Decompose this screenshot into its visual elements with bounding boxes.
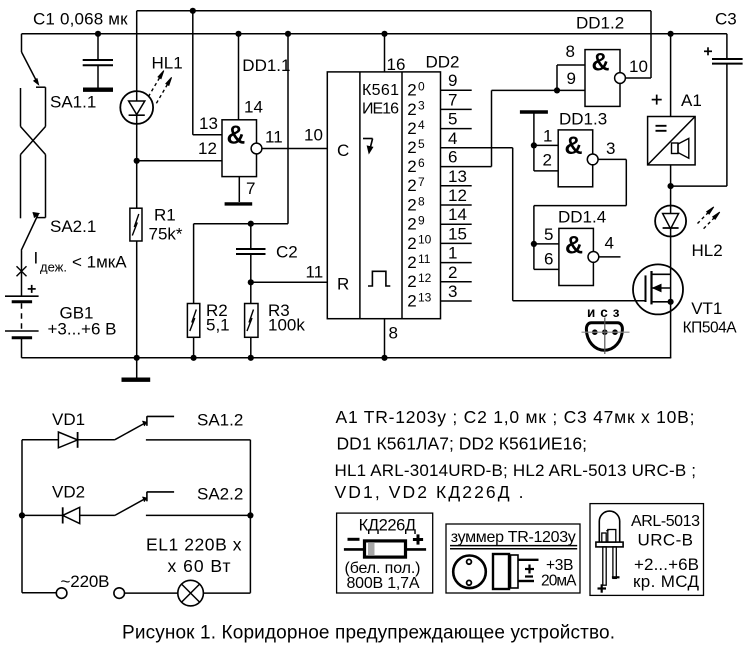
svg-text:2: 2 — [407, 157, 416, 176]
svg-text:12: 12 — [418, 271, 432, 285]
svg-text:DD1.2: DD1.2 — [576, 14, 624, 33]
svg-text:HL2: HL2 — [692, 241, 723, 260]
svg-text:КП504А: КП504А — [683, 319, 738, 336]
svg-text:5: 5 — [448, 110, 457, 129]
svg-text:14: 14 — [244, 98, 263, 117]
svg-text:х 60 Вт: х 60 Вт — [168, 556, 231, 576]
svg-text:2: 2 — [407, 119, 416, 138]
svg-text:2: 2 — [407, 176, 416, 195]
svg-text:ИЕ16: ИЕ16 — [362, 101, 399, 118]
svg-text:C2: C2 — [276, 243, 298, 262]
svg-text:2: 2 — [448, 263, 457, 282]
svg-text:+3В: +3В — [546, 557, 574, 574]
svg-text:КД226Д: КД226Д — [359, 517, 417, 535]
svg-text:VT1: VT1 — [691, 299, 722, 318]
svg-text:SA2.1: SA2.1 — [50, 217, 96, 236]
svg-text:DD1.1: DD1.1 — [242, 56, 290, 75]
svg-text:11: 11 — [306, 263, 324, 282]
svg-text:20мА: 20мА — [541, 573, 577, 590]
svg-text:13: 13 — [448, 167, 467, 186]
svg-text:2: 2 — [407, 138, 416, 157]
svg-text:800В 1,7А: 800В 1,7А — [347, 575, 420, 592]
svg-text:15: 15 — [448, 224, 467, 243]
svg-text:5,1: 5,1 — [206, 316, 230, 335]
svg-text:C1 0,068 мк: C1 0,068 мк — [33, 10, 128, 29]
svg-text:5: 5 — [544, 225, 553, 244]
svg-text:I: I — [34, 249, 39, 268]
svg-text:10: 10 — [629, 57, 648, 76]
svg-text:&: & — [565, 132, 583, 160]
svg-text:2: 2 — [407, 81, 416, 100]
svg-text:2: 2 — [407, 215, 416, 234]
svg-text:DD2: DD2 — [426, 53, 460, 72]
svg-text:13: 13 — [418, 290, 432, 304]
svg-text:0: 0 — [418, 80, 425, 94]
svg-text:1: 1 — [543, 126, 552, 145]
svg-text:9: 9 — [567, 69, 576, 88]
svg-text:11: 11 — [418, 252, 431, 266]
svg-text:14: 14 — [448, 205, 467, 224]
svg-text:A1 TR-1203у ; C2 1,0 мк ; C: A1 TR-1203у ; C2 1,0 мк ; C3 47мк х 10В; — [336, 407, 695, 427]
svg-text:2: 2 — [407, 195, 416, 214]
svg-text:10: 10 — [304, 126, 323, 145]
svg-text:DD1 К561ЛА7; DD2 К561ИЕ16;: DD1 К561ЛА7; DD2 К561ИЕ16; — [337, 434, 588, 454]
svg-text:5: 5 — [418, 137, 425, 151]
svg-text:10: 10 — [418, 233, 432, 247]
svg-text:2: 2 — [407, 272, 416, 291]
svg-text:DD1.4: DD1.4 — [558, 207, 606, 226]
svg-text:&: & — [592, 49, 610, 77]
svg-text:VD1: VD1 — [52, 410, 85, 429]
svg-text:2: 2 — [543, 150, 552, 169]
svg-text:3: 3 — [418, 99, 425, 113]
svg-text:URC-B: URC-B — [638, 530, 694, 549]
svg-text:8: 8 — [389, 324, 398, 343]
svg-text:2: 2 — [407, 253, 416, 272]
svg-text:16: 16 — [387, 55, 406, 74]
svg-text:< 1мкА: < 1мкА — [72, 253, 127, 272]
svg-text:R: R — [337, 275, 349, 294]
svg-text:11: 11 — [265, 128, 283, 147]
svg-text:12: 12 — [448, 186, 467, 205]
svg-text:DD1.3: DD1.3 — [559, 109, 607, 128]
svg-text:2: 2 — [407, 100, 416, 119]
svg-text:8: 8 — [566, 42, 575, 61]
svg-text:кр. МСД: кр. МСД — [633, 572, 699, 591]
svg-text:SA2.2: SA2.2 — [197, 485, 243, 504]
svg-text:К561: К561 — [362, 82, 399, 99]
svg-text:6: 6 — [448, 148, 457, 167]
svg-text:6: 6 — [544, 249, 553, 268]
svg-text:EL1 220В х: EL1 220В х — [146, 535, 242, 555]
svg-text:9: 9 — [448, 71, 457, 90]
svg-text:9: 9 — [418, 214, 425, 228]
svg-text:2: 2 — [407, 234, 416, 253]
svg-text:зуммер TR-1203у: зуммер TR-1203у — [451, 529, 576, 546]
svg-text:2: 2 — [407, 291, 416, 310]
svg-text:C3: C3 — [715, 10, 737, 29]
svg-text:SA1.2: SA1.2 — [197, 411, 243, 430]
svg-text:~220В: ~220В — [61, 572, 110, 591]
svg-text:+3...+6 В: +3...+6 В — [48, 320, 117, 339]
svg-text:HL1 ARL-3014URD-B; HL2 ARL-50: HL1 ARL-3014URD-B; HL2 ARL-5013 URC-B ; — [335, 461, 697, 480]
svg-text:SA1.1: SA1.1 — [50, 93, 96, 112]
svg-text:1: 1 — [448, 244, 457, 263]
svg-text:75k*: 75k* — [149, 225, 183, 244]
svg-text:7: 7 — [418, 175, 425, 189]
svg-text:&: & — [227, 120, 246, 150]
svg-text:HL1: HL1 — [152, 54, 183, 73]
svg-text:6: 6 — [418, 156, 425, 170]
svg-text:ARL-5013: ARL-5013 — [631, 513, 700, 530]
svg-text:3: 3 — [606, 139, 615, 158]
svg-text:7: 7 — [448, 90, 457, 109]
svg-text:4: 4 — [605, 234, 614, 253]
svg-text:R1: R1 — [154, 206, 176, 225]
svg-text:4: 4 — [448, 129, 457, 148]
svg-text:C: C — [337, 141, 349, 160]
svg-text:12: 12 — [198, 139, 217, 158]
svg-text:7: 7 — [246, 179, 255, 198]
svg-text:4: 4 — [418, 118, 425, 132]
svg-text:100k: 100k — [268, 316, 305, 335]
svg-text:Рисунок 1. Коридорное предупр: Рисунок 1. Коридорное предупреждающее ус… — [122, 623, 615, 644]
svg-text:&: & — [565, 232, 583, 260]
svg-text:A1: A1 — [681, 91, 702, 110]
svg-text:13: 13 — [199, 114, 218, 133]
svg-text:VD2: VD2 — [52, 482, 85, 501]
svg-text:VD1, VD2 КД226Д .: VD1, VD2 КД226Д . — [335, 482, 524, 502]
svg-text:8: 8 — [418, 194, 425, 208]
svg-text:3: 3 — [448, 282, 457, 301]
svg-text:деж.: деж. — [40, 260, 67, 275]
